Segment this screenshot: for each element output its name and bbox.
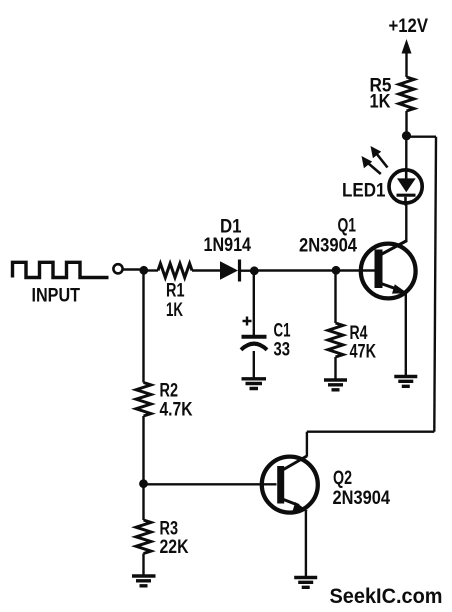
svg-text:+12V: +12V (389, 16, 429, 37)
svg-text:2N3904: 2N3904 (299, 236, 357, 257)
wire node D to right rail (407, 135, 437, 137)
LED1 emission arrow 1 (374, 151, 388, 168)
wire node C down to R4 (334, 271, 336, 324)
Q2 collector line (284, 456, 307, 470)
svg-text:33: 33 (274, 340, 291, 361)
ground (below R4) (324, 380, 347, 390)
wire node E down to R3 (142, 484, 144, 520)
svg-text:INPUT: INPUT (32, 286, 81, 307)
wire R1 to D1 (192, 269, 220, 271)
node C (junction dot Q1 base / R4) (332, 266, 341, 275)
wire terminal to node A (123, 268, 140, 270)
supply arrow up (405, 50, 407, 77)
wire right rail to Q2 collector (307, 431, 434, 433)
Q1 collector line (381, 241, 407, 255)
wire Q1 emitter to ground (405, 293, 407, 376)
transistor Q1 (2N3904 NPN) (361, 244, 416, 299)
svg-text:1N914: 1N914 (204, 235, 252, 256)
wire R4 to ground (334, 357, 336, 379)
svg-text:1K: 1K (370, 92, 391, 113)
svg-text:Q2: Q2 (333, 468, 352, 489)
ground (below Q2 emitter) (294, 578, 317, 588)
input terminal (open circle) (113, 264, 122, 273)
wire right rail down (434, 137, 436, 432)
wire D1 to node B (241, 270, 254, 272)
wire node B to Q1 base node (254, 269, 375, 271)
resistor R2 (136, 383, 151, 417)
svg-text:22K: 22K (160, 537, 189, 558)
ground (below R3) (132, 576, 156, 586)
diode D1 (220, 261, 238, 279)
resistor R4 (328, 323, 343, 357)
wire R3 to ground (142, 554, 144, 576)
svg-text:SeekIC.com: SeekIC.com (330, 585, 443, 608)
wire LED1 to Q1 collector (405, 204, 407, 242)
wire node B down to C1 (253, 271, 255, 335)
svg-text:R1: R1 (166, 281, 185, 302)
svg-text:1K: 1K (166, 300, 183, 321)
wire node E to Q2 base (144, 483, 277, 485)
svg-text:LED1: LED1 (342, 181, 386, 202)
wire Q2 emitter down to ground (305, 511, 307, 577)
svg-text:47K: 47K (350, 342, 377, 363)
svg-text:4.7K: 4.7K (160, 400, 193, 421)
wire Q2 collector up to right rail (306, 432, 308, 457)
wire node D to LED1 (405, 136, 407, 171)
resistor R3 (136, 520, 151, 554)
wire R2 to node E (142, 416, 144, 484)
LED1 emission arrow 2 (365, 161, 381, 175)
ground (below C1) (242, 379, 267, 389)
transistor Q2 (2N3904 NPN) (262, 457, 318, 513)
ground (below Q1 emitter) (394, 377, 417, 387)
input square wave symbol (13, 262, 109, 277)
Q1 emitter line with arrow (381, 284, 400, 291)
wire C1 to ground (253, 351, 255, 378)
wire node A to R1 (144, 269, 158, 271)
LED1 (389, 170, 422, 203)
node A (junction dot R1/R2) (139, 266, 148, 275)
svg-text:C1: C1 (274, 321, 291, 342)
wire R5 to node D (405, 111, 407, 135)
svg-text:R2: R2 (160, 381, 179, 402)
node D (junction dot R5/LED/feedback) (402, 131, 411, 140)
svg-text:Q1: Q1 (338, 216, 357, 237)
node B (junction dot D1/C1) (250, 266, 259, 275)
svg-text:2N3904: 2N3904 (333, 488, 391, 509)
resistor R5 (399, 77, 414, 111)
wire node A down to R2 (142, 271, 144, 383)
capacitor C1 plus sign (243, 317, 252, 326)
Q2 emitter line with arrow (284, 500, 300, 506)
capacitor C1 (242, 335, 267, 339)
node E (junction dot R2/R3/Q2 base) (139, 479, 148, 488)
resistor R1 (158, 264, 192, 278)
